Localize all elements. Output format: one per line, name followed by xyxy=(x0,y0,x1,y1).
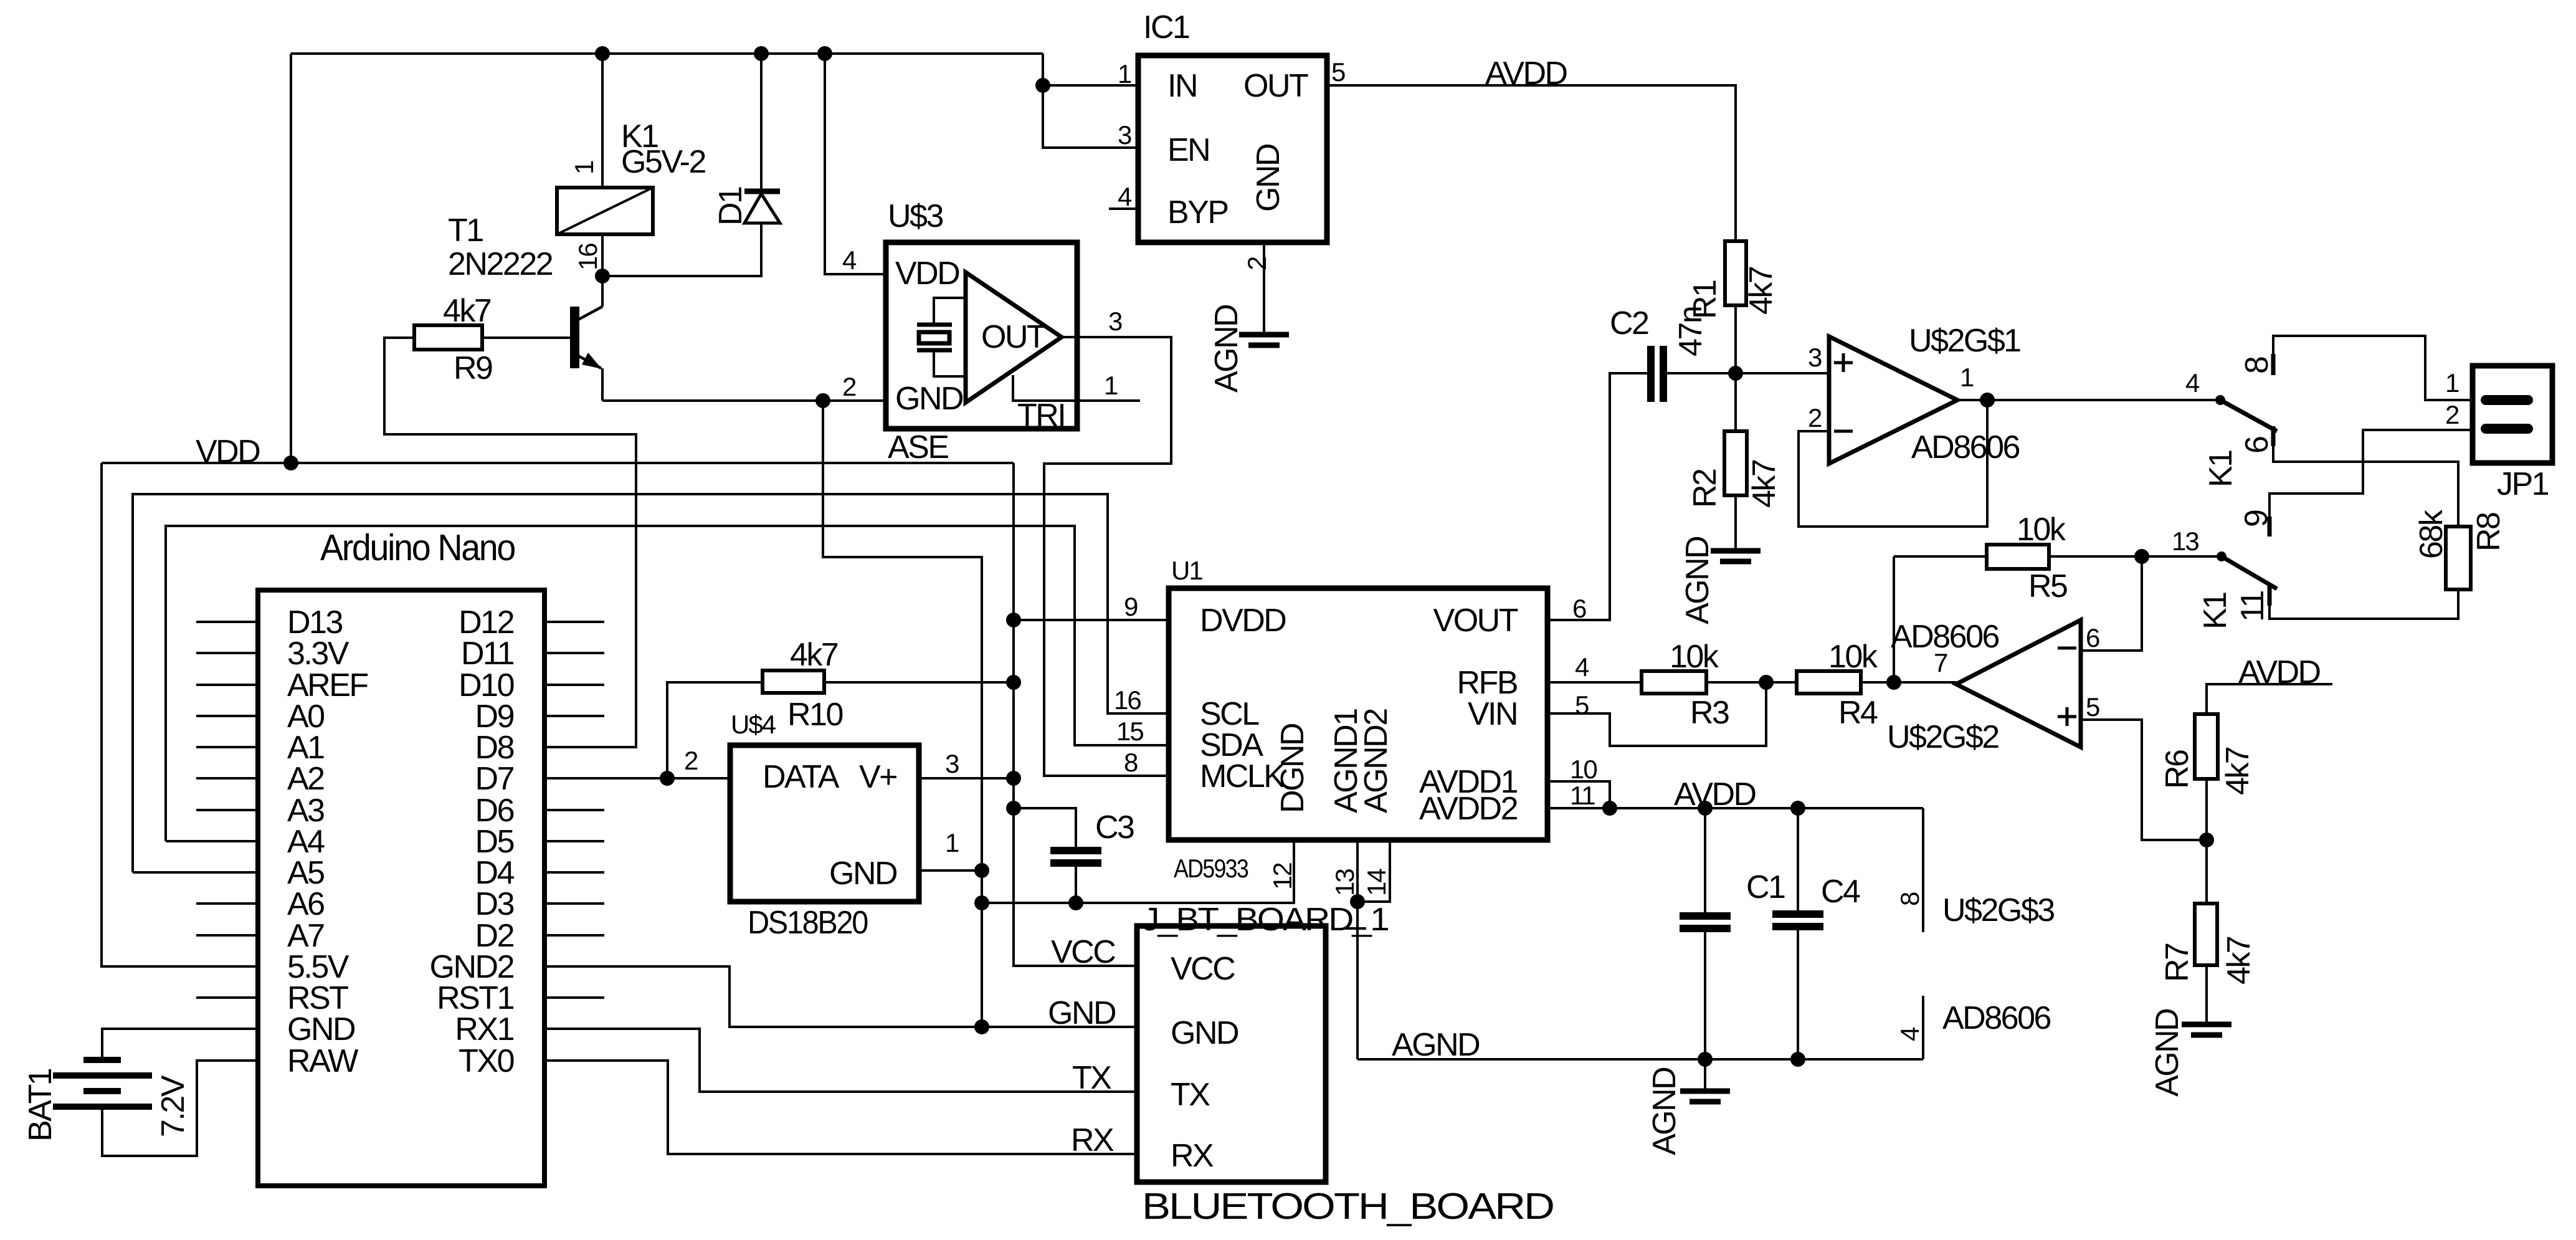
svg-text:AD8606: AD8606 xyxy=(1911,429,2019,465)
node top-D1 junction xyxy=(754,46,769,61)
svg-text:6: 6 xyxy=(2239,437,2275,454)
node C3 top junction xyxy=(1006,801,1021,816)
svg-text:AGND: AGND xyxy=(1647,1067,1683,1155)
svg-text:JP1: JP1 xyxy=(2497,466,2549,502)
wire AGND2 pin14 jog xyxy=(1357,839,1390,902)
svg-text:5: 5 xyxy=(2086,692,2099,722)
wire TX0 to BT RX xyxy=(544,1061,1137,1154)
svg-text:R4: R4 xyxy=(1838,695,1878,731)
svg-text:A6: A6 xyxy=(287,886,324,922)
oscillator buffer triangle U$3 xyxy=(966,272,1062,403)
svg-text:AD5933: AD5933 xyxy=(1174,854,1248,883)
wire VDD rail xyxy=(102,462,1014,464)
U1 AD5933 box xyxy=(1169,588,1547,840)
svg-text:R2: R2 xyxy=(1687,469,1723,508)
svg-text:5: 5 xyxy=(1331,57,1345,87)
svg-text:2N2222: 2N2222 xyxy=(448,246,553,282)
svg-text:C4: C4 xyxy=(1821,874,1860,910)
wire net13 to opamp2 minus xyxy=(2081,556,2142,651)
svg-text:OUT: OUT xyxy=(1243,68,1308,104)
svg-text:1: 1 xyxy=(945,828,959,857)
wire emitter to ASE GND xyxy=(602,399,823,402)
wire to opamp1 plus xyxy=(1736,372,1829,374)
svg-text:R8: R8 xyxy=(2471,513,2507,551)
wire VOUT pin6 to C2 xyxy=(1547,373,1647,620)
svg-text:TX: TX xyxy=(1171,1077,1210,1113)
svg-text:2: 2 xyxy=(1808,403,1822,432)
svg-text:RX: RX xyxy=(1071,1122,1114,1158)
wire DGND pin12 xyxy=(982,839,1294,903)
svg-text:TRI: TRI xyxy=(1017,398,1065,434)
svg-text:4: 4 xyxy=(1895,1027,1924,1041)
svg-text:GND: GND xyxy=(1048,995,1116,1031)
wire GND pin to battery xyxy=(102,1029,258,1057)
wire GND pin1 U$4 xyxy=(919,869,982,872)
wire AVDD right flag xyxy=(2207,684,2332,714)
wire relay coil bottom xyxy=(601,234,604,276)
svg-text:8: 8 xyxy=(2239,357,2275,374)
capacitor C4 xyxy=(1772,808,1823,1059)
svg-text:AGND: AGND xyxy=(1392,1027,1480,1063)
wire VDD vertical to VCC xyxy=(1014,463,1137,966)
svg-text:VCC: VCC xyxy=(1171,951,1235,987)
switch K1b contact 9 xyxy=(2268,517,2272,537)
svg-text:12: 12 xyxy=(1268,863,1297,890)
relay K1 coil xyxy=(557,188,653,234)
wire U$2G$3 pin4 stub xyxy=(1922,996,1924,1059)
svg-text:1: 1 xyxy=(1104,371,1118,400)
svg-text:D3: D3 xyxy=(475,886,514,922)
wire relay coil top xyxy=(601,54,604,188)
ground AGND at IC1 xyxy=(1239,335,1289,345)
svg-text:D1: D1 xyxy=(713,187,749,226)
node DATA junction xyxy=(660,771,675,786)
wire contact6 to R8 top xyxy=(2273,446,2458,527)
svg-text:RX: RX xyxy=(1171,1138,1214,1174)
svg-text:AVDD: AVDD xyxy=(1485,55,1567,92)
wire DATA pin2 xyxy=(544,777,730,780)
svg-text:DVDD: DVDD xyxy=(1200,603,1286,639)
svg-text:AD8606: AD8606 xyxy=(1942,1000,2050,1036)
wire to D1 anode xyxy=(602,223,761,276)
svg-text:RAW: RAW xyxy=(287,1043,358,1079)
svg-text:11: 11 xyxy=(1570,781,1595,810)
svg-text:9: 9 xyxy=(1124,592,1138,621)
svg-text:V+: V+ xyxy=(859,759,896,795)
pin stubs Arduino right xyxy=(544,622,604,998)
wire opamp2 plus to ref xyxy=(2081,720,2207,840)
node U$4 GND junction xyxy=(974,863,989,878)
wire AGND rail xyxy=(1357,1058,1923,1061)
resistor R9 xyxy=(384,325,570,350)
svg-text:16: 16 xyxy=(1114,685,1141,715)
wire SDA to A4 xyxy=(166,840,258,842)
svg-text:3: 3 xyxy=(1118,120,1131,150)
svg-text:15: 15 xyxy=(1116,717,1143,746)
svg-text:U$2G$1: U$2G$1 xyxy=(1909,323,2020,359)
svg-text:4k7: 4k7 xyxy=(1743,267,1779,315)
svg-text:U$3: U$3 xyxy=(888,198,943,234)
U$4 DS18B20 box xyxy=(730,745,919,902)
wire JP1 pin2 to contact 9 xyxy=(2269,430,2473,517)
wire opamp1 output xyxy=(1957,399,2220,401)
svg-text:BLUETOOTH_BOARD: BLUETOOTH_BOARD xyxy=(1142,1186,1553,1227)
svg-text:VCC: VCC xyxy=(1051,934,1115,970)
svg-text:10: 10 xyxy=(1570,755,1597,784)
switch K1a contact 8 xyxy=(2271,354,2276,375)
wire BYP stub xyxy=(1109,207,1138,210)
wire U$3 OUT pin3 to MCLK xyxy=(1044,337,1171,776)
svg-text:GND: GND xyxy=(895,381,963,417)
svg-text:VIN: VIN xyxy=(1468,696,1517,732)
labels Arduino right pins xyxy=(430,604,515,1079)
node C4 bottom junction xyxy=(1790,1052,1805,1067)
svg-text:4: 4 xyxy=(842,246,857,275)
svg-text:R9: R9 xyxy=(454,350,492,386)
wire net13 xyxy=(2142,555,2222,558)
wire VDD left to 5.5V xyxy=(102,463,258,966)
resistor R10 xyxy=(763,670,1014,693)
wire IC1 IN/EN feed xyxy=(1043,54,1138,148)
svg-text:1: 1 xyxy=(2445,368,2459,398)
capacitor C2 xyxy=(1647,346,1667,402)
switch K1b pivot xyxy=(2217,551,2227,561)
wire VIN jog xyxy=(1547,682,1766,746)
svg-text:VOUT: VOUT xyxy=(1433,603,1518,639)
svg-text:R7: R7 xyxy=(2159,943,2195,982)
svg-text:4k7: 4k7 xyxy=(2221,937,2257,985)
svg-text:EN: EN xyxy=(1167,132,1209,168)
wire AVDD2 rail xyxy=(1547,807,1923,809)
svg-text:8: 8 xyxy=(1124,748,1138,777)
transistor Q T1 xyxy=(570,276,602,401)
switch K1a contact 6 xyxy=(2271,426,2276,446)
svg-text:Arduino Nano: Arduino Nano xyxy=(320,527,515,568)
wire DVDD pin9 xyxy=(1014,619,1169,621)
svg-text:6: 6 xyxy=(2086,623,2099,652)
svg-text:13: 13 xyxy=(2172,527,2198,556)
svg-text:4k7: 4k7 xyxy=(443,293,491,329)
svg-text:IN: IN xyxy=(1167,68,1197,104)
svg-text:BYP: BYP xyxy=(1167,194,1228,231)
wire SCL to A5 xyxy=(133,871,258,874)
wire IC1 GND pin2 xyxy=(1263,242,1265,332)
wire AVDD1 jog xyxy=(1547,781,1610,808)
svg-text:D7: D7 xyxy=(475,761,514,797)
svg-text:2: 2 xyxy=(1242,257,1271,270)
node AGND1 junction xyxy=(1350,894,1365,909)
svg-text:AGND: AGND xyxy=(1680,537,1716,624)
wire contact11 to R8 bottom xyxy=(2269,589,2458,619)
svg-text:4k7: 4k7 xyxy=(1746,460,1782,508)
wire opamp1 feedback xyxy=(1799,400,1987,527)
node V+ junction xyxy=(1006,771,1021,786)
svg-text:3: 3 xyxy=(1808,343,1822,372)
diode D1 xyxy=(744,54,780,223)
wire TRI stub pin1 xyxy=(1077,399,1140,402)
switch K1b contact 11 xyxy=(2268,584,2272,606)
svg-text:R10: R10 xyxy=(787,697,842,733)
svg-text:3: 3 xyxy=(1108,307,1122,336)
node DVDD junction xyxy=(1006,613,1021,627)
ground AGND below C1 xyxy=(1680,1059,1730,1102)
node C1 bottom junction xyxy=(1698,1052,1713,1067)
wire TRI internal xyxy=(1013,375,1077,401)
U$3 box xyxy=(886,242,1077,429)
svg-text:DGND: DGND xyxy=(1275,723,1311,813)
svg-text:GND: GND xyxy=(1171,1015,1238,1051)
svg-text:GND: GND xyxy=(287,1011,355,1047)
svg-text:C1: C1 xyxy=(1746,869,1785,905)
svg-text:MCLK: MCLK xyxy=(1200,758,1285,794)
svg-text:R1: R1 xyxy=(1687,280,1723,319)
wire GND2 to BT GND xyxy=(544,966,1137,1027)
wire U$2G$3 pin8 stub xyxy=(1922,808,1924,932)
capacitor C3 xyxy=(1014,808,1101,903)
node opamp1 out junction xyxy=(1980,393,1995,408)
svg-text:T1: T1 xyxy=(448,212,483,249)
svg-text:5: 5 xyxy=(1575,690,1589,720)
svg-text:R6: R6 xyxy=(2159,750,2195,789)
svg-text:14: 14 xyxy=(1362,869,1391,896)
BLUETOOTH_BOARD box xyxy=(1137,926,1326,1182)
node C4 top junction xyxy=(1790,801,1805,816)
svg-text:GND: GND xyxy=(829,856,897,892)
svg-text:K1: K1 xyxy=(2203,451,2239,487)
node R3-R4 junction xyxy=(1759,675,1774,690)
op-amp U$2G$2 xyxy=(1956,620,2081,747)
svg-text:BAT1: BAT1 xyxy=(22,1069,59,1142)
svg-text:AVDD: AVDD xyxy=(1674,776,1756,813)
svg-text:9: 9 xyxy=(2238,510,2274,527)
JP1 box xyxy=(2473,366,2552,463)
svg-text:AGND: AGND xyxy=(2149,1009,2185,1097)
battery BAT1 xyxy=(53,1060,152,1107)
wire U$3 VDD pin4 xyxy=(825,54,886,274)
wire C2 to divider node xyxy=(1667,372,1736,374)
svg-text:IC1: IC1 xyxy=(1143,9,1189,45)
svg-text:4: 4 xyxy=(1575,652,1589,682)
svg-text:DATA: DATA xyxy=(763,759,840,795)
node VDD rail junction xyxy=(283,455,298,470)
svg-text:TX0: TX0 xyxy=(459,1043,513,1079)
svg-text:ASE: ASE xyxy=(888,429,948,465)
wire top rail VDD xyxy=(291,52,1043,55)
svg-text:R3: R3 xyxy=(1690,695,1729,731)
capacitor C1 xyxy=(1680,808,1731,1059)
svg-text:2: 2 xyxy=(842,372,856,401)
svg-text:AVDD2: AVDD2 xyxy=(1419,791,1518,827)
svg-text:10k: 10k xyxy=(1670,639,1719,675)
node ref divider junction xyxy=(2199,832,2214,847)
svg-text:3.3V: 3.3V xyxy=(287,636,349,672)
svg-text:1: 1 xyxy=(1960,363,1974,392)
switch K1b blade xyxy=(2222,556,2277,589)
wire SDA rail xyxy=(166,526,1169,841)
node top-U$3VDD junction xyxy=(817,46,832,61)
svg-text:2: 2 xyxy=(684,746,698,775)
node DGND rail junction xyxy=(974,895,989,910)
node BT GND junction xyxy=(974,1019,989,1034)
node R10-VDD junction xyxy=(1006,675,1021,690)
crystal symbol U$3 xyxy=(917,298,966,376)
wire IC1 OUT to AVDD xyxy=(1327,85,1736,241)
switch K1a pivot xyxy=(2215,395,2225,405)
node ASE GND junction xyxy=(815,393,830,408)
svg-text:DS18B20: DS18B20 xyxy=(748,905,868,941)
node R4-opamp junction xyxy=(1886,675,1901,690)
wire battery plus to RAW xyxy=(102,1061,258,1156)
ground AGND at R7 xyxy=(2182,1024,2231,1035)
wire V+ pin3 xyxy=(919,777,1014,780)
resistor R5 xyxy=(1894,545,2142,569)
svg-text:11: 11 xyxy=(2235,591,2271,622)
svg-text:68k: 68k xyxy=(2413,509,2450,559)
svg-text:VDD: VDD xyxy=(196,434,260,470)
svg-text:7: 7 xyxy=(1934,648,1947,677)
node AVDD2 junction xyxy=(1602,801,1617,816)
svg-text:6: 6 xyxy=(1572,594,1586,623)
resistor R2 xyxy=(1724,373,1747,548)
switch K1a blade xyxy=(2220,400,2277,431)
svg-text:OUT: OUT xyxy=(981,319,1046,355)
op-amp U$2G$1 xyxy=(1829,336,1957,464)
wire D8 to R9 loop xyxy=(384,338,636,747)
wire SCL rail xyxy=(133,494,1169,872)
svg-text:D11: D11 xyxy=(461,636,514,672)
svg-text:VDD: VDD xyxy=(895,255,959,292)
resistor R7 xyxy=(2195,840,2217,1022)
svg-text:U1: U1 xyxy=(1171,556,1202,585)
wire RX1 to BT TX xyxy=(544,1029,1137,1092)
svg-text:U$4: U$4 xyxy=(731,710,776,739)
svg-text:C2: C2 xyxy=(1610,305,1648,341)
svg-text:TX: TX xyxy=(1072,1060,1111,1096)
node R5 right junction xyxy=(2134,549,2149,564)
svg-text:A2: A2 xyxy=(287,761,324,797)
svg-text:C3: C3 xyxy=(1095,809,1134,846)
svg-text:U$2G$2: U$2G$2 xyxy=(1887,719,1999,755)
node C1 top junction xyxy=(1698,801,1713,816)
svg-text:U$2G$3: U$2G$3 xyxy=(1942,892,2054,928)
svg-text:R5: R5 xyxy=(2028,568,2067,604)
svg-text:GND: GND xyxy=(1250,144,1286,212)
resistor R1 xyxy=(1725,241,1746,373)
svg-text:3: 3 xyxy=(945,749,959,778)
svg-text:13: 13 xyxy=(1330,869,1359,896)
node relay-collector-D1 junction xyxy=(595,269,610,284)
svg-text:1: 1 xyxy=(569,161,599,174)
node IN junction xyxy=(1035,78,1050,93)
wire DATA to R10 xyxy=(667,682,763,778)
wire VDD left drop xyxy=(290,54,292,463)
svg-text:4: 4 xyxy=(1118,182,1132,211)
IC1 box xyxy=(1138,55,1327,242)
resistor R8 xyxy=(2446,527,2471,589)
resistor R3 xyxy=(1547,671,1797,694)
net tick J_BT_BOARD_1 xyxy=(1346,927,1366,930)
resistor R6 xyxy=(2195,714,2218,840)
svg-text:G5V-2: G5V-2 xyxy=(621,144,705,180)
svg-text:J_BT_BOARD_1: J_BT_BOARD_1 xyxy=(1142,902,1389,938)
svg-text:16: 16 xyxy=(573,244,602,270)
svg-text:RX1: RX1 xyxy=(455,1011,513,1047)
wire IN pin1 xyxy=(1043,84,1138,87)
ground AGND at R2 xyxy=(1711,551,1761,561)
pin stubs Arduino left xyxy=(196,622,258,998)
svg-text:AGND: AGND xyxy=(1209,305,1245,393)
resistor R4 xyxy=(1797,671,1956,694)
svg-text:10k: 10k xyxy=(1828,639,1878,675)
wire ASE GND down-right xyxy=(823,401,982,1027)
Arduino Nano box xyxy=(258,590,544,1186)
svg-text:7.2V: 7.2V xyxy=(155,1075,191,1137)
wire U$3 GND pin2 xyxy=(823,399,886,402)
svg-text:4: 4 xyxy=(2185,368,2200,398)
svg-text:K1: K1 xyxy=(2197,593,2233,629)
svg-text:8: 8 xyxy=(1895,892,1924,906)
svg-text:10k: 10k xyxy=(2017,512,2066,548)
svg-text:2: 2 xyxy=(2445,400,2459,429)
labels Arduino left pins xyxy=(287,604,368,1079)
svg-text:1: 1 xyxy=(1118,59,1131,88)
wire R5 left drop xyxy=(1893,556,1895,682)
wire AGND1 pin13 drop xyxy=(1356,839,1359,1059)
svg-text:4k7: 4k7 xyxy=(790,637,838,673)
wire contact8 to JP1 pin1 xyxy=(2273,336,2473,400)
node top-relay junction xyxy=(595,46,610,61)
svg-text:AGND2: AGND2 xyxy=(1358,709,1394,813)
node C3 bottom junction xyxy=(1068,895,1083,910)
svg-text:4k7: 4k7 xyxy=(2220,747,2256,795)
node divider junction xyxy=(1728,366,1743,381)
